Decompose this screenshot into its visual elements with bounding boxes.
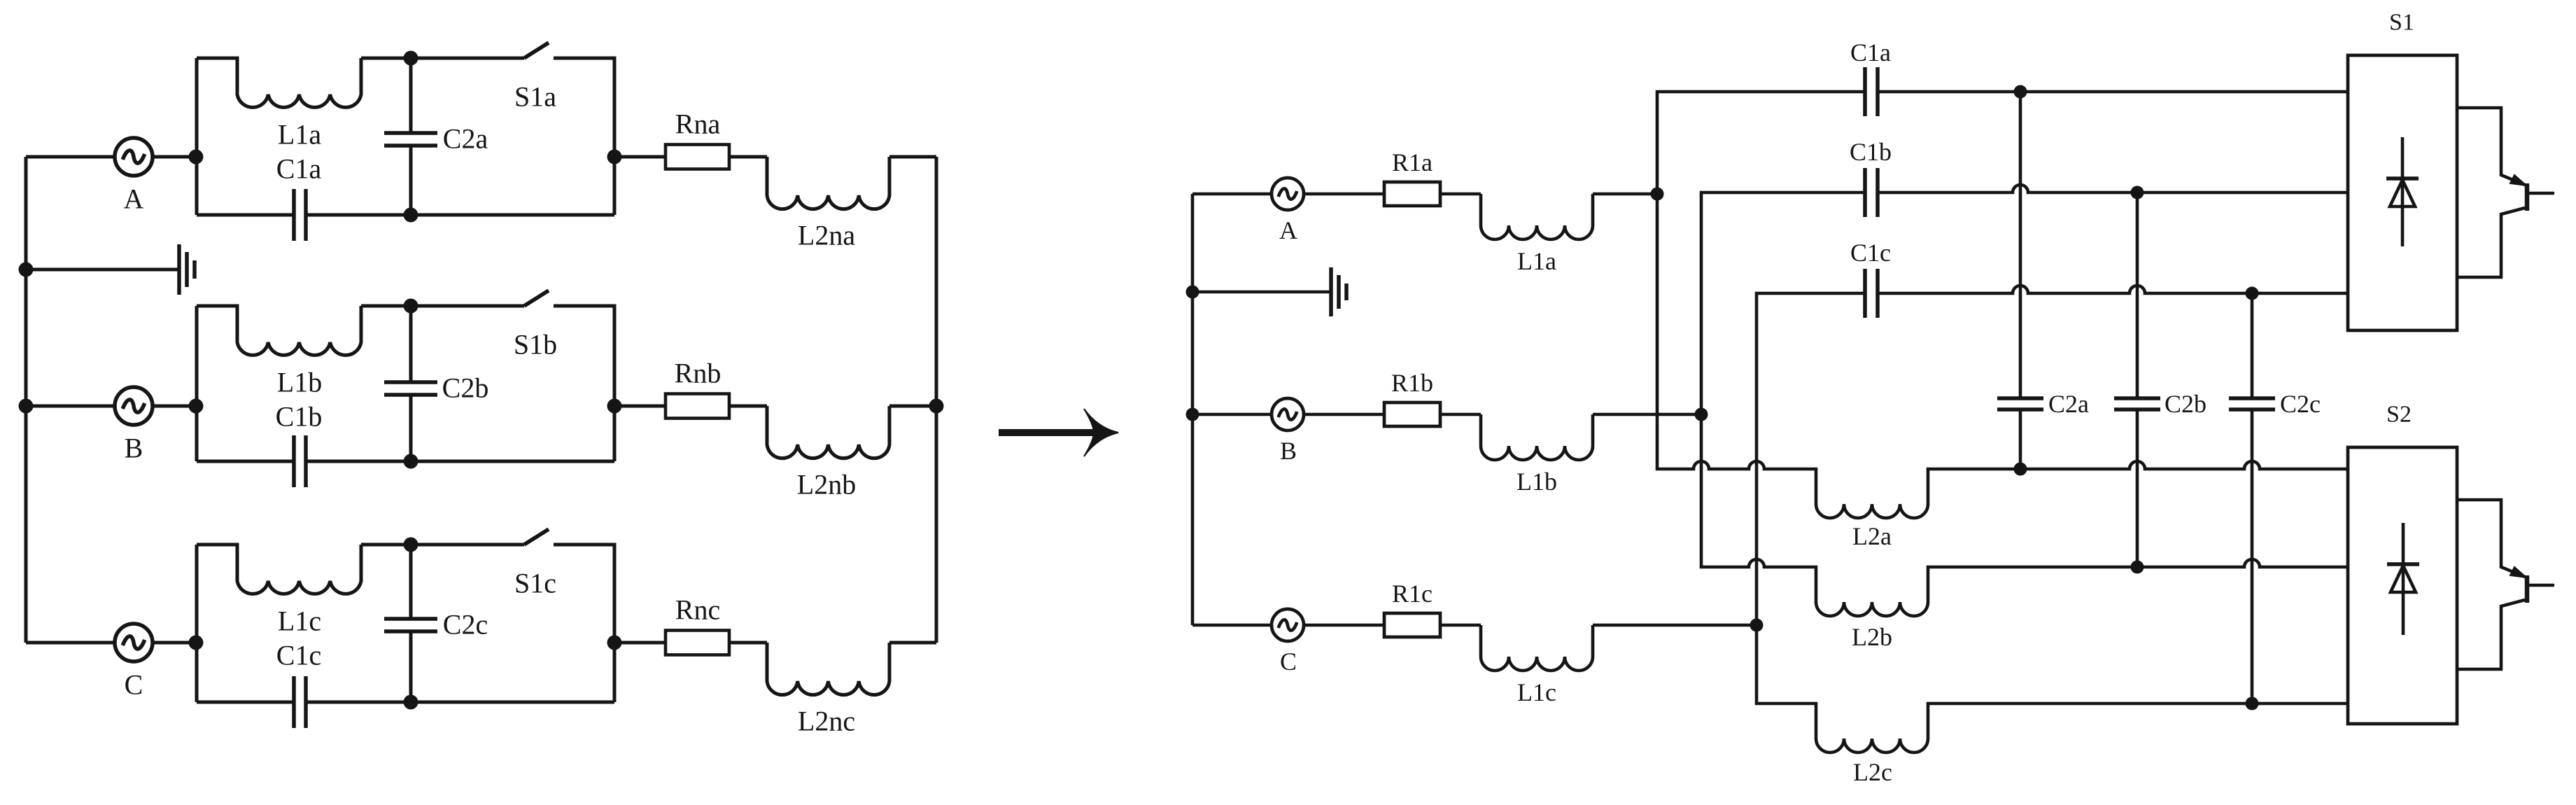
node: right bus phase-B junction bbox=[929, 399, 944, 414]
svg-text:S1: S1 bbox=[2389, 10, 2414, 36]
wire: bus to source A bbox=[26, 155, 115, 159]
wire: top rail to switch S1a bbox=[361, 57, 524, 60]
wire: L2nc to right bus bbox=[889, 641, 936, 645]
resistor R1b bbox=[1384, 402, 1440, 426]
ac source B bbox=[115, 387, 153, 425]
svg-text:C: C bbox=[125, 669, 143, 701]
capacitor C2b (vertical shunt) bbox=[2136, 192, 2139, 398]
wire+inductor L2c branch bbox=[1757, 625, 2348, 752]
wire: block c left vertical bbox=[195, 545, 199, 702]
wire: L1c to node C bbox=[1593, 624, 1757, 627]
capacitor C2c (vertical shunt) bbox=[2251, 293, 2254, 398]
wire: block b left vertical bbox=[195, 306, 199, 461]
capacitor C2c (shunt) bbox=[409, 545, 413, 619]
node: C1b/C2b junction bbox=[2131, 186, 2144, 199]
wire: bus to source A (right) bbox=[1192, 192, 1272, 196]
svg-text:L2nc: L2nc bbox=[798, 706, 855, 737]
capacitor C1b (series, bottom rail) bbox=[197, 460, 294, 463]
svg-text:B: B bbox=[1280, 437, 1297, 465]
wire: node to resistor Rnc bbox=[614, 641, 666, 645]
transistor (IGBT) of S2 bbox=[2457, 500, 2525, 577]
wire: R1c to L1c bbox=[1440, 624, 1481, 627]
wire: source A to resistor R1a bbox=[1304, 192, 1384, 196]
wire: switch S1a to block a right side bbox=[554, 58, 614, 215]
svg-text:R1b: R1b bbox=[1391, 369, 1433, 397]
diode inside S1 bbox=[2401, 137, 2405, 246]
svg-text:C1c: C1c bbox=[1850, 239, 1891, 267]
wire: right circuit source bus bbox=[1191, 194, 1195, 625]
ground (right) bbox=[1192, 290, 1331, 294]
wire: L2nb to right bus bbox=[889, 405, 936, 408]
inductor L1c (right) bbox=[1481, 625, 1593, 671]
node: bus-phase-B junction (right) bbox=[1186, 408, 1199, 421]
svg-text:L1c: L1c bbox=[278, 605, 321, 637]
resistor R1c bbox=[1384, 613, 1440, 637]
wire: switch S1c to block c right side bbox=[554, 545, 614, 702]
svg-text:Rnb: Rnb bbox=[675, 358, 722, 389]
svg-text:L2a: L2a bbox=[1852, 522, 1892, 550]
ac source A (right) bbox=[1272, 178, 1304, 210]
svg-text:C1a: C1a bbox=[276, 153, 322, 185]
svg-text:C1b: C1b bbox=[1850, 138, 1892, 166]
wire: L1b to node B bbox=[1593, 413, 1701, 416]
inductor L1a bbox=[197, 58, 361, 107]
svg-text:C1c: C1c bbox=[276, 640, 321, 671]
svg-text:B: B bbox=[125, 433, 143, 464]
wire+inductor L2a branch (hops over node-B, node-C verticals, C2b, C2c) bbox=[1657, 194, 2348, 518]
svg-text:C1b: C1b bbox=[276, 401, 323, 433]
wire: node to resistor Rna bbox=[614, 155, 666, 159]
ac source C (right) bbox=[1272, 609, 1304, 641]
wire: resistor Rnb to inductor L2nb bbox=[729, 405, 767, 408]
svg-text:S1c: S1c bbox=[514, 568, 556, 599]
wire: bus to source B bbox=[26, 405, 115, 408]
svg-text:L1a: L1a bbox=[278, 119, 321, 150]
wire: source C to node bbox=[152, 641, 197, 645]
svg-text:L1a: L1a bbox=[1517, 247, 1556, 275]
wire: node C up to C1c branch bbox=[1757, 293, 1865, 625]
node: block b output bbox=[607, 399, 622, 414]
wire: node B up to C1b branch bbox=[1701, 192, 1865, 414]
node: C2a bottom bbox=[404, 208, 418, 223]
svg-text:L2nb: L2nb bbox=[797, 469, 856, 500]
wire: left circuit right bus bbox=[935, 157, 938, 643]
resistor Rna bbox=[666, 145, 729, 169]
node: block b input bbox=[189, 399, 204, 414]
capacitor C1a bbox=[1863, 67, 1867, 116]
wire: L1a to node A bbox=[1593, 192, 1657, 196]
block S2 bbox=[2348, 447, 2457, 724]
wire: C1c to S1 (hops over C2a, C2b) bbox=[1878, 286, 2348, 293]
wire+inductor L2b branch (hops over node-C vertical, C2c) bbox=[1701, 414, 2348, 616]
inductor L1a (right) bbox=[1481, 194, 1593, 239]
capacitor C1c (series, bottom rail) bbox=[197, 701, 294, 704]
svg-text:R1c: R1c bbox=[1392, 580, 1433, 608]
wire: bus to source B (right) bbox=[1192, 413, 1272, 416]
inductor L2na bbox=[767, 157, 889, 209]
wire: source B to resistor R1b bbox=[1304, 413, 1384, 416]
wire: node A up to C1a branch bbox=[1657, 92, 1865, 194]
svg-text:A: A bbox=[1279, 216, 1297, 244]
node: L2a/C2a junction bbox=[2014, 463, 2027, 476]
node: bus-ground junction bbox=[19, 262, 34, 277]
node: block a output bbox=[607, 150, 622, 164]
capacitor C1c bbox=[1863, 269, 1867, 318]
svg-text:A: A bbox=[124, 183, 144, 215]
svg-text:L1b: L1b bbox=[1516, 468, 1557, 496]
svg-text:S1b: S1b bbox=[514, 329, 557, 360]
wire: resistor Rnc to inductor L2nc bbox=[729, 641, 767, 645]
svg-text:C2c: C2c bbox=[443, 609, 488, 640]
svg-text:R1a: R1a bbox=[1392, 148, 1433, 176]
inductor L1b bbox=[197, 306, 361, 355]
svg-text:L2na: L2na bbox=[798, 220, 855, 251]
block S1 bbox=[2348, 55, 2457, 330]
svg-text:C2a: C2a bbox=[443, 123, 488, 155]
node B (right) bbox=[1695, 408, 1708, 421]
inductor L1c bbox=[197, 545, 361, 594]
node: bus-phase-B junction bbox=[19, 399, 34, 414]
wire: switch S1b to block b right side bbox=[554, 306, 614, 461]
svg-text:S2: S2 bbox=[2386, 402, 2412, 428]
node: C2c bottom bbox=[404, 695, 418, 710]
wire: top rail to switch S1c bbox=[361, 543, 524, 547]
ac source C bbox=[115, 624, 153, 661]
node: C1c/C2c junction bbox=[2246, 287, 2259, 300]
wire: R1a to L1a bbox=[1440, 192, 1481, 196]
svg-text:L2c: L2c bbox=[1853, 758, 1892, 786]
node: C2a top bbox=[404, 51, 418, 66]
svg-text:C2b: C2b bbox=[2165, 390, 2207, 418]
switch S1a bbox=[524, 43, 549, 58]
ac source B (right) bbox=[1272, 398, 1304, 430]
node: block c input bbox=[189, 636, 204, 650]
svg-text:L1c: L1c bbox=[1517, 678, 1556, 706]
node: C2b bottom bbox=[404, 454, 418, 469]
node: block c output bbox=[607, 636, 622, 650]
node: block a input bbox=[189, 150, 204, 164]
arrow between circuits bbox=[999, 429, 1096, 436]
wire: C1a to S1 bbox=[1878, 90, 2348, 94]
ground bbox=[26, 268, 179, 272]
capacitor C2b (shunt) bbox=[409, 306, 413, 382]
ac source A bbox=[115, 138, 153, 176]
svg-text:C1a: C1a bbox=[1850, 38, 1891, 66]
wire: L2na to right bus bbox=[889, 155, 936, 159]
wire: top rail to switch S1b bbox=[361, 304, 524, 308]
svg-text:C2c: C2c bbox=[2280, 390, 2321, 418]
transistor (IGBT) of S1 bbox=[2457, 108, 2525, 185]
svg-text:C2b: C2b bbox=[442, 372, 489, 404]
node: L2c/C2c junction bbox=[2246, 697, 2259, 710]
svg-text:L2b: L2b bbox=[1852, 623, 1892, 651]
svg-text:L1b: L1b bbox=[277, 367, 322, 398]
inductor L1b (right) bbox=[1481, 414, 1593, 460]
svg-text:Rnc: Rnc bbox=[675, 594, 720, 626]
node: C2c top bbox=[404, 538, 418, 552]
node C (right) bbox=[1750, 619, 1764, 632]
node: C2b top bbox=[404, 299, 418, 314]
svg-text:C2a: C2a bbox=[2048, 390, 2089, 418]
svg-text:C: C bbox=[1280, 647, 1297, 675]
wire: source B to node bbox=[152, 405, 197, 408]
node A (right) bbox=[1651, 188, 1664, 201]
node: L2b/C2b junction bbox=[2131, 561, 2144, 574]
inductor L2nc bbox=[767, 643, 889, 695]
wire: source A to node bbox=[152, 155, 197, 159]
capacitor C2a (shunt) bbox=[409, 58, 413, 133]
wire: R1b to L1b bbox=[1440, 413, 1481, 416]
inductor L2nb bbox=[767, 406, 889, 458]
node: C1a/C2a junction bbox=[2014, 85, 2027, 99]
wire: block a left vertical bbox=[195, 58, 199, 215]
wire: bus to source C (right) bbox=[1192, 624, 1272, 627]
capacitor C2a (vertical shunt) bbox=[2019, 92, 2022, 398]
node: bus-ground junction (right) bbox=[1186, 286, 1199, 299]
capacitor C1a (series, bottom rail) bbox=[197, 213, 294, 217]
svg-text:Rna: Rna bbox=[675, 108, 721, 140]
capacitor C1b bbox=[1863, 168, 1867, 217]
svg-text:S1a: S1a bbox=[514, 81, 556, 113]
resistor Rnb bbox=[666, 394, 729, 419]
wire: bus to source C bbox=[26, 641, 115, 645]
switch S1b bbox=[524, 290, 549, 306]
resistor R1a bbox=[1384, 182, 1440, 206]
resistor Rnc bbox=[666, 631, 729, 655]
wire: resistor Rna to inductor L2na bbox=[729, 155, 767, 159]
wire: C1b to S1 (hops over C2a) bbox=[1878, 185, 2348, 192]
wire: source C to resistor R1c bbox=[1304, 624, 1384, 627]
wire: left source bus bbox=[24, 157, 28, 643]
switch S1c bbox=[524, 529, 549, 545]
wire: node to resistor Rnb bbox=[614, 405, 666, 408]
diode inside S2 bbox=[2402, 523, 2405, 635]
